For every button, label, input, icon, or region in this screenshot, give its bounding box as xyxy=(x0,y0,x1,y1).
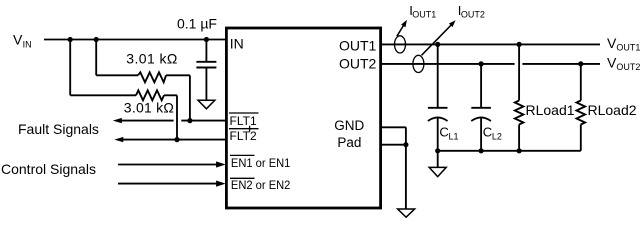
junction dot R1/FLT1 xyxy=(187,118,192,123)
wire CL1 to rail xyxy=(437,117,439,151)
svg-text:L2: L2 xyxy=(492,131,502,141)
node VOUT2 label xyxy=(607,54,640,72)
svg-text:0.1 µF: 0.1 µF xyxy=(177,16,217,32)
svg-text:OUT2: OUT2 xyxy=(461,9,485,19)
wire RLoad2 to rail xyxy=(580,125,582,151)
arrowhead EN2 xyxy=(216,181,226,187)
label IOUT1 xyxy=(409,3,436,20)
svg-text:OUT1: OUT1 xyxy=(412,9,436,19)
ground symbol below GND Pad xyxy=(398,209,415,217)
wire EN2 control input xyxy=(118,183,217,185)
capacitor C1 plates xyxy=(196,62,216,68)
arrowhead FLT2 fault output xyxy=(114,137,123,142)
svg-text:Pad: Pad xyxy=(337,135,361,150)
capacitor CL2 top plate xyxy=(471,107,491,109)
stray tick between FLT1 and FLT2 xyxy=(249,126,251,132)
svg-text:OUT2: OUT2 xyxy=(616,62,640,72)
node VIN label xyxy=(13,31,32,49)
junction dot VIN/R1 xyxy=(94,37,99,42)
svg-text:3.01 kΩ: 3.01 kΩ xyxy=(126,51,177,67)
wire OUT2 left segment xyxy=(382,63,515,65)
svg-text:GND: GND xyxy=(334,118,364,133)
pin label EN1 with overline, or EN1 xyxy=(230,155,291,170)
svg-text:V: V xyxy=(13,31,23,47)
resistor R2 body xyxy=(136,90,164,100)
ground symbol below rail xyxy=(429,167,446,176)
current probe ellipse IOUT2 xyxy=(413,55,424,72)
ground symbol below C1 xyxy=(198,100,215,109)
ground rail under loads xyxy=(438,150,581,152)
arrowhead FLT1 fault output xyxy=(113,118,122,123)
IC box U1 xyxy=(226,28,380,208)
resistor RLoad2 body xyxy=(577,101,586,125)
wire FLT2 xyxy=(123,139,226,141)
svg-text:L1: L1 xyxy=(449,131,459,141)
svg-text:Control Signals: Control Signals xyxy=(1,161,96,177)
wire OUT2 down to CL2 xyxy=(480,64,482,108)
wire R2 down to FLT2 crossing FLT1 xyxy=(176,95,178,139)
pin label EN2 with overline, or EN2 xyxy=(230,178,291,192)
wire CL2 to rail xyxy=(480,117,482,151)
svg-text:RLoad2: RLoad2 xyxy=(588,102,637,118)
current probe ellipse IOUT1 xyxy=(395,36,406,53)
svg-text:RLoad1: RLoad1 xyxy=(526,102,575,118)
wire VIN down to R1 xyxy=(95,40,97,76)
svg-text:OUT1: OUT1 xyxy=(616,42,640,52)
wire R2 right end xyxy=(164,94,177,96)
arrowhead EN1 xyxy=(216,161,226,167)
svg-text:3.01 kΩ: 3.01 kΩ xyxy=(124,100,174,116)
svg-text:C: C xyxy=(483,125,492,140)
junction dot OUT1/RLoad1 xyxy=(517,42,522,47)
svg-text:EN2 or EN2: EN2 or EN2 xyxy=(231,178,291,192)
arrow IOUT2 xyxy=(422,20,456,55)
wire VIN down to R2 xyxy=(69,40,71,96)
wire rail down to ground xyxy=(437,151,439,168)
wire GND/Pad down to ground xyxy=(405,127,407,209)
resistor RLoad1 body xyxy=(515,101,524,125)
wire OUT1 down to CL1 xyxy=(437,44,439,107)
wire OUT2 right segment xyxy=(522,63,600,65)
arrow IOUT1 xyxy=(397,20,407,36)
svg-text:C: C xyxy=(439,125,448,140)
capacitor CL1 curved plate xyxy=(428,117,448,121)
svg-text:OUT2: OUT2 xyxy=(339,56,377,72)
svg-text:Fault Signals: Fault Signals xyxy=(18,121,99,137)
svg-text:IN: IN xyxy=(230,36,244,52)
wire OUT1 down to RLoad1 xyxy=(518,44,520,100)
junction dot RLoad1/rail xyxy=(517,148,522,153)
label CL1 xyxy=(439,125,458,142)
junction dot VIN/C1 xyxy=(204,37,209,42)
junction dot Pad/GND wire xyxy=(403,142,408,147)
svg-text:IN: IN xyxy=(23,39,32,49)
svg-text:FLT2: FLT2 xyxy=(230,129,257,143)
wire OUT1 to VOUT1 xyxy=(382,43,600,45)
resistor R1 body xyxy=(138,72,166,82)
junction dot OUT1/CL1 xyxy=(435,42,440,47)
capacitor CL2 curved plate xyxy=(471,117,491,121)
junction dot OUT2/CL2 xyxy=(479,61,484,66)
wire VIN to IN pin xyxy=(44,39,226,41)
pin label FLT2 with overline xyxy=(229,129,259,143)
wire Pad pin stub xyxy=(381,144,406,146)
wire OUT2 down to RLoad2 xyxy=(580,64,582,101)
svg-text:EN1 or EN1: EN1 or EN1 xyxy=(231,156,291,170)
junction dot rail/CL2 xyxy=(479,148,484,153)
wire GND pin stub xyxy=(381,126,406,128)
pin label FLT1 with overline xyxy=(229,113,259,128)
wire EN1 control input xyxy=(118,164,217,166)
junction dot rail/CL1/ground xyxy=(435,148,440,153)
svg-text:OUT1: OUT1 xyxy=(339,38,377,54)
wire VIN down to C1 top plate xyxy=(205,40,207,62)
wire FLT1 right segment xyxy=(181,120,226,122)
wire to R2 left end xyxy=(70,94,136,96)
wire R1 down to FLT1 xyxy=(189,75,191,120)
capacitor CL1 top plate xyxy=(428,107,448,109)
wire C1 bottom plate to ground xyxy=(205,68,207,101)
svg-text:FLT1: FLT1 xyxy=(230,114,257,128)
junction dot R2/FLT2 xyxy=(174,137,179,142)
wire FLT1 left segment xyxy=(122,120,174,122)
wire R1 right end xyxy=(166,74,190,76)
label CL2 xyxy=(483,125,502,142)
wire RLoad1 to rail xyxy=(518,125,520,151)
label IOUT2 xyxy=(458,3,485,20)
junction dot OUT2/RLoad2 xyxy=(578,61,583,66)
node VOUT1 label xyxy=(607,35,640,53)
wire to R1 left end xyxy=(96,74,138,76)
junction dot VIN/R2 xyxy=(68,37,73,42)
